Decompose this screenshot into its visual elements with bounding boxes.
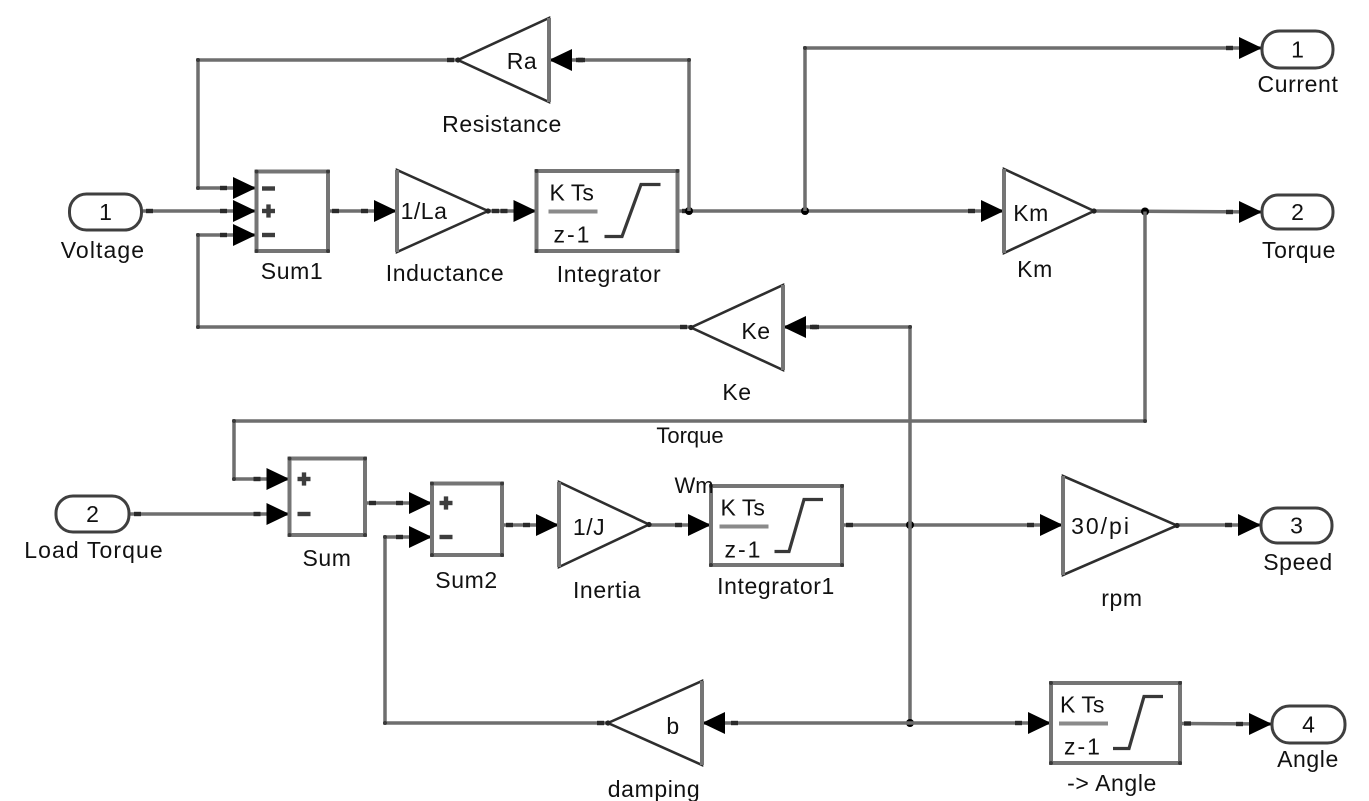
svg-text:Current: Current <box>1258 71 1339 97</box>
gain 1/La (Inductance) <box>386 170 505 286</box>
svg-text:K Ts: K Ts <box>1060 692 1104 718</box>
svg-text:Angle: Angle <box>1277 746 1339 772</box>
svg-text:z-1: z-1 <box>725 537 763 563</box>
outport 3 Speed <box>1261 508 1333 575</box>
gain b (damping) <box>605 681 702 801</box>
node torque junction <box>1141 208 1149 216</box>
wire damping line to Angle integrator <box>910 712 1051 734</box>
wire torque feedback to Sum <box>232 212 1147 491</box>
svg-text:rpm: rpm <box>1101 585 1142 611</box>
wire Integrator1 to rpm <box>842 514 1063 536</box>
signal label Torque <box>656 423 723 448</box>
sum block Sum1 <box>255 170 331 285</box>
svg-text:4: 4 <box>1302 712 1315 738</box>
svg-text:z-1: z-1 <box>1064 734 1102 760</box>
gain Km <box>1004 169 1097 282</box>
svg-text:Km: Km <box>1017 256 1053 282</box>
outport 4 Angle <box>1272 706 1345 772</box>
sum block Sum2 <box>430 482 504 594</box>
wire Sum2 to Inertia <box>502 514 559 536</box>
svg-text:Ke: Ke <box>722 379 751 405</box>
svg-text:Sum1: Sum1 <box>261 258 323 284</box>
wire Voltage to Sum1 <box>142 200 256 222</box>
node current-feedback junction <box>685 207 693 215</box>
gain Ke <box>688 285 783 405</box>
wire Integrator to Km <box>678 200 1004 222</box>
svg-text:Inductance: Inductance <box>386 260 505 286</box>
svg-text:-> Angle: -> Angle <box>1067 770 1157 796</box>
gain 30/pi (rpm) <box>1063 476 1180 611</box>
wire Sum1 to Inductance <box>328 200 397 222</box>
svg-text:Inertia: Inertia <box>573 577 641 603</box>
svg-text:1/J: 1/J <box>573 514 605 540</box>
wire Wm feedback up to Ke <box>783 316 912 525</box>
wire Inertia to Integrator1 <box>649 514 711 536</box>
svg-text:K Ts: K Ts <box>721 495 765 521</box>
svg-text:K Ts: K Ts <box>550 180 594 206</box>
wire damping line to damping gain <box>702 712 910 734</box>
node Wm junction <box>906 521 914 529</box>
svg-text:Ra: Ra <box>507 48 537 74</box>
svg-text:Resistance: Resistance <box>442 111 562 137</box>
svg-text:Sum: Sum <box>302 545 351 571</box>
svg-text:2: 2 <box>1291 199 1304 225</box>
svg-text:Torque: Torque <box>1262 237 1336 263</box>
integrator block Integrator1 <box>709 484 844 599</box>
integrator block -> Angle <box>1049 681 1182 796</box>
wire Load Torque to Sum <box>130 503 290 525</box>
gain Ra (Resistance) <box>442 18 562 137</box>
node damping junction <box>906 719 914 727</box>
wire Inductance to Integrator <box>488 200 537 222</box>
svg-text:30/pi: 30/pi <box>1071 513 1131 539</box>
svg-text:1: 1 <box>1291 37 1304 63</box>
wire Ke to Sum1 bottom input <box>196 224 691 329</box>
svg-text:b: b <box>666 713 679 739</box>
svg-text:Km: Km <box>1013 200 1049 226</box>
svg-text:1/La: 1/La <box>401 198 448 224</box>
svg-text:2: 2 <box>86 501 99 527</box>
svg-text:Torque: Torque <box>656 423 723 448</box>
outport 1 Current <box>1258 31 1339 97</box>
sum block Sum <box>288 457 368 572</box>
svg-text:damping: damping <box>608 776 700 801</box>
svg-text:Integrator: Integrator <box>557 261 661 287</box>
svg-text:Integrator1: Integrator1 <box>717 573 835 599</box>
gain 1/J (Inertia) <box>559 482 652 603</box>
inport 1 Voltage <box>61 194 145 263</box>
wire Wm down to damping line <box>908 525 912 723</box>
wire damping to Sum2 bottom input <box>383 526 608 725</box>
signal label Wm <box>674 473 713 498</box>
svg-text:Sum2: Sum2 <box>435 567 497 593</box>
svg-text:1: 1 <box>99 199 112 225</box>
svg-text:Load Torque: Load Torque <box>24 537 164 563</box>
svg-text:Ke: Ke <box>741 318 770 344</box>
wire Km to Torque outport <box>1094 201 1262 223</box>
wire Resistance to Sum1 top input <box>196 58 458 199</box>
svg-text:3: 3 <box>1290 513 1303 539</box>
wire current feedback up to Resistance <box>549 49 691 211</box>
integrator block Integrator <box>535 169 680 287</box>
svg-text:Voltage: Voltage <box>61 237 145 263</box>
svg-text:z-1: z-1 <box>554 222 592 248</box>
svg-text:Speed: Speed <box>1263 549 1333 575</box>
wire Angle integrator to Angle outport <box>1180 713 1272 735</box>
wire rpm to Speed outport <box>1177 514 1261 536</box>
wire to Current outport <box>803 37 1262 211</box>
inport 2 Load Torque <box>24 496 164 563</box>
node current-out junction <box>801 207 809 215</box>
svg-text:Wm: Wm <box>674 473 713 498</box>
wire Sum to Sum2 <box>365 492 432 514</box>
outport 2 Torque <box>1262 195 1336 263</box>
